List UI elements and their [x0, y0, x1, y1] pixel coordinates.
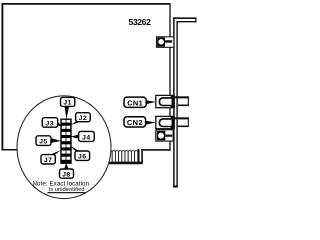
leader J5	[51, 138, 61, 143]
bracket	[173, 17, 197, 187]
CN2 connector	[156, 116, 189, 129]
J4 label	[79, 131, 95, 141]
leader J4	[71, 134, 79, 139]
card outline (PCB)	[2, 3, 171, 151]
J3 label	[42, 118, 57, 128]
svg-text:53262: 53262	[129, 17, 152, 27]
J1 label	[61, 97, 75, 106]
J8 label	[60, 169, 74, 178]
J2 label	[76, 113, 91, 122]
CN1 label	[124, 97, 156, 107]
top screw box	[157, 37, 174, 48]
CN1 connector	[156, 95, 189, 108]
svg-text:J4: J4	[82, 134, 91, 141]
svg-text:J7: J7	[44, 157, 53, 164]
svg-text:J5: J5	[39, 138, 48, 145]
svg-text:J1: J1	[63, 100, 72, 107]
svg-text:J6: J6	[78, 153, 87, 160]
svg-text:J2: J2	[79, 115, 88, 122]
leader J3	[57, 121, 62, 127]
CN2 label	[124, 117, 156, 127]
J5 label	[36, 136, 51, 146]
leader J6	[70, 146, 81, 152]
bottom screw box	[156, 130, 173, 141]
svg-text:CN2: CN2	[127, 118, 143, 127]
J6 label	[75, 151, 90, 160]
coil end bar	[138, 149, 140, 163]
leader J2	[71, 121, 82, 126]
edge-connector tongue	[105, 149, 143, 163]
svg-text:J8: J8	[62, 171, 71, 178]
leader J1	[65, 106, 70, 120]
jumper header block	[61, 119, 71, 163]
leader J8	[64, 163, 69, 169]
leader J7	[50, 150, 61, 155]
J7 label	[41, 155, 55, 164]
magnifier circle	[17, 96, 111, 199]
edge connector fingers (coil)	[109, 150, 138, 162]
svg-text:J3: J3	[46, 120, 55, 127]
svg-text:CN1: CN1	[127, 98, 143, 107]
